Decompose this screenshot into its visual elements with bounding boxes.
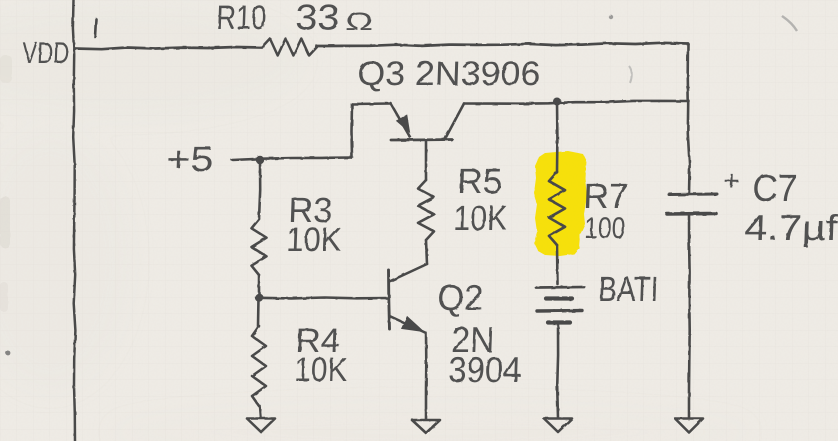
svg-text:Q3 2N3906: Q3 2N3906 xyxy=(357,55,541,93)
svg-text:+: + xyxy=(723,165,740,196)
svg-text:C7: C7 xyxy=(752,168,798,210)
svg-text:R5: R5 xyxy=(457,162,503,201)
svg-text:10K: 10K xyxy=(453,199,508,238)
svg-text:Q2: Q2 xyxy=(437,277,484,318)
svg-text:3904: 3904 xyxy=(448,349,522,390)
svg-text:+5: +5 xyxy=(166,140,214,179)
svg-text:Ω: Ω xyxy=(345,8,374,36)
svg-text:BATI: BATI xyxy=(598,270,659,309)
svg-text:100: 100 xyxy=(584,212,626,245)
svg-text:10K: 10K xyxy=(294,351,349,389)
svg-text:R10: R10 xyxy=(216,0,267,37)
svg-text:VDD: VDD xyxy=(22,37,70,70)
svg-text:4.7µf: 4.7µf xyxy=(744,207,838,248)
svg-text:10K: 10K xyxy=(286,221,343,259)
svg-text:R7: R7 xyxy=(583,177,629,216)
svg-text:33: 33 xyxy=(295,0,340,37)
